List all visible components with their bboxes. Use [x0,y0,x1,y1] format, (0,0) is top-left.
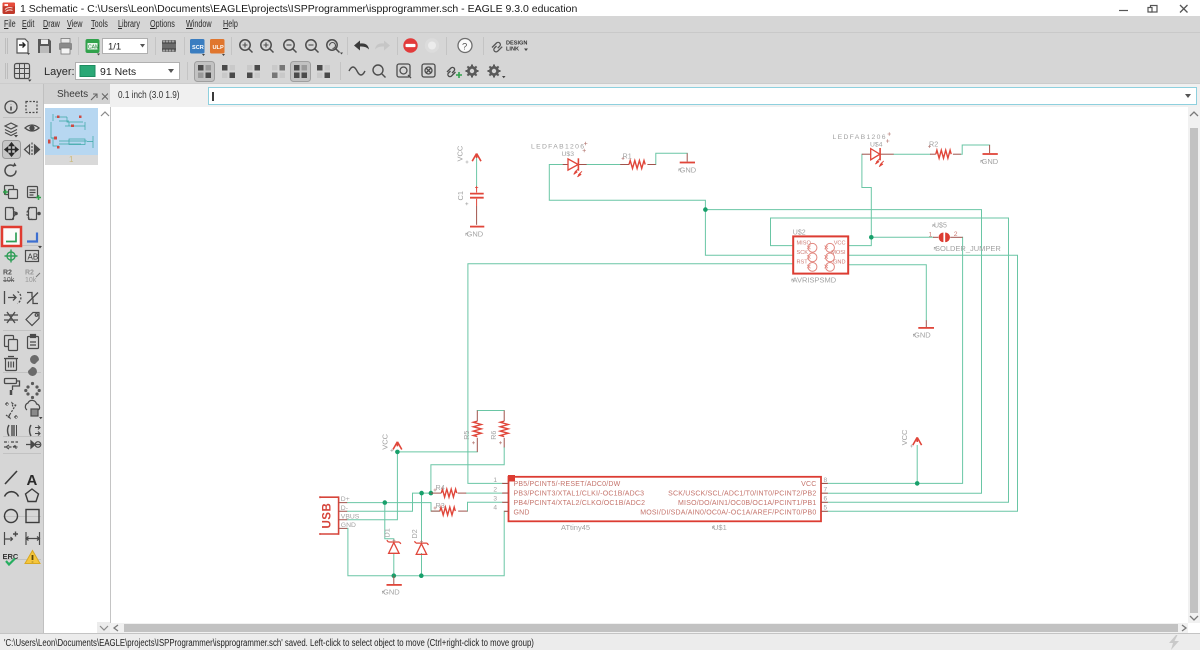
tool attribute [26,313,39,326]
wire net VCC: jumper pin2 down to ATtiny pin8 [828,237,963,483]
tool net (selected) [2,227,21,246]
tool gateswap [27,293,38,304]
layer dropdown [76,63,180,80]
svg-text:ERC: ERC [3,552,19,561]
label C1 [456,191,468,205]
redo icon (disabled) [375,41,390,51]
svg-text:7: 7 [824,487,828,494]
tool mirror [25,143,40,157]
frames tool 1 [397,64,411,78]
svg-text:GND: GND [467,230,484,239]
tool delete [4,357,18,371]
svg-text:R1: R1 [623,152,632,161]
svg-text:6: 6 [824,496,828,503]
svg-text:10k: 10k [3,277,15,284]
svg-text:U$4: U$4 [870,141,883,148]
svg-text:R2: R2 [929,140,938,149]
design link [492,41,528,53]
stop icon [403,38,417,52]
svg-text:5: 5 [824,505,828,512]
svg-text:AVRISPSMD: AVRISPSMD [793,275,837,284]
svg-text:RST: RST [797,260,809,266]
tool show [25,125,39,131]
tool rect [26,510,39,523]
svg-text:2: 2 [954,231,958,238]
label R5 [462,431,475,445]
diode D1 zener [387,540,401,553]
ground GND3 right of R1 [679,153,697,174]
label R4 [434,483,445,492]
U$1 pin numbers [493,477,827,512]
tool bus [27,233,42,249]
junction D- / D2 [419,491,424,496]
label AVRISPSMD [792,275,837,284]
save icon [38,39,51,53]
svg-text:GND: GND [680,165,697,174]
wire LED U$3 cathode to R1 [587,164,621,166]
svg-text:3: 3 [493,496,497,503]
tool change [6,208,18,220]
label U$1 [712,523,726,532]
svg-text:PB5/PCINT5/-RESET/ADC0/DW: PB5/PCINT5/-RESET/ADC0/DW [514,481,621,488]
ground GND6 bottom [382,576,402,597]
label D1 [383,528,396,542]
wire U$2 VCC pin jog to junction [848,237,871,245]
wire D2 branch down [421,493,423,576]
sheet selector 1/1 [103,39,148,54]
CAM job icon [86,39,101,56]
junction D- / R6 / R4 [429,491,434,496]
svg-text:GND: GND [341,522,356,529]
tool line [5,471,17,484]
tool paste-group [28,187,42,201]
svg-text:1: 1 [929,231,933,238]
ground GND5 below U$2 [913,320,934,339]
label SOLDER_JUMPER [934,244,1001,253]
wire junction to solder jumper pin1 [871,236,933,238]
wire R2 to GND [961,145,990,154]
svg-text:GND: GND [833,260,845,266]
supply VCC1 above C1 [456,145,482,163]
wire D1 branch down [385,503,394,542]
tool ratsnest [4,312,18,323]
link tool [447,67,462,78]
svg-text:U$3: U$3 [562,151,575,158]
wire R6 bottom to R4 junction [431,447,504,493]
tool properties [27,208,40,220]
svg-text:LINK: LINK [506,47,519,53]
wire net D+: USB D+ to R3 [347,503,440,512]
tool rotate [5,163,16,177]
U$1 pin function labels [514,481,817,516]
svg-text:Layer:: Layer: [44,66,75,78]
capacitor C1 [470,186,484,206]
zoom out icon [284,40,297,53]
zoom select icon [306,40,319,53]
grid icon [15,64,32,82]
wire net MOSI: U$2 MOSI to ATtiny pin5 [828,255,1018,511]
wire net D-: USB D- to R4 [347,493,431,511]
tool redraw dots [24,382,41,399]
svg-text:MISO/DO/AIN1/OC0B/OC1A/PCINT1/: MISO/DO/AIN1/OC0B/OC1A/PCINT1/PB1 [678,500,816,507]
svg-text:GND: GND [914,331,931,340]
wire net VBUS: USB VBUS up to VCC junction and right to R5 [347,452,477,520]
USB pin leads [339,503,348,529]
export icon [17,39,30,55]
svg-text:SCR: SCR [192,45,204,51]
svg-text:GND: GND [514,509,530,516]
svg-text:PB3/PCINT3/XTAL1/CLKI/-OC1B/AD: PB3/PCINT3/XTAL1/CLKI/-OC1B/ADC3 [514,491,645,498]
display options group [195,62,331,82]
gear tool 2 [488,65,506,79]
svg-text:91 Nets: 91 Nets [100,66,136,78]
svg-text:R6: R6 [489,431,498,440]
tool wrench [28,355,39,376]
label ATtiny45 [561,523,590,532]
junction VCC / ATtiny pin8 [915,481,920,486]
sine tool [349,67,365,75]
wire R4 right to ATtiny pin2 [466,492,502,494]
svg-text:SCK: SCK [797,250,809,256]
ULP icon [210,39,225,56]
svg-text:D2: D2 [410,529,419,538]
zoom fit icon [240,40,253,53]
solder jumper U$5 [929,231,963,242]
tool pinswap [5,402,18,419]
tool copy [5,336,18,351]
wire LED U$4 anode down to junction [862,154,871,237]
svg-text:CAM: CAM [88,45,99,51]
U$1 right pin leads 8-5 [821,483,828,511]
wire LED U$4 cathode to R2 [894,153,930,155]
wire net SCK: junction down to U$2 SCK pin [705,210,792,256]
U$2 pad name labels [797,241,846,266]
label U$2 [793,229,806,236]
svg-text:LEDFAB1206: LEDFAB1206 [531,143,584,150]
U$1 left pin leads 1-4 [502,483,508,511]
svg-text:D1: D1 [383,528,392,537]
svg-text:10k: 10k [25,277,37,284]
tool paste [28,335,39,349]
zoom redraw icon [327,40,343,55]
op-amp-style IC body U$1 ATtiny45 [493,475,827,521]
tool measure [26,532,40,545]
svg-text:D-: D- [341,505,348,512]
svg-text:U$1: U$1 [713,523,727,532]
ground GND4 right of R2 [981,145,999,166]
zoom in icon [261,40,274,53]
resistor R1 [620,161,656,169]
tool paint [5,379,20,396]
svg-text:U$2: U$2 [793,229,806,236]
svg-text:ULP: ULP [213,45,224,51]
tool arrow-diode [26,441,41,448]
svg-text:MISO: MISO [797,241,812,247]
USB pin name labels [341,496,360,529]
tool invoke [5,291,21,304]
svg-text:C1: C1 [456,191,465,201]
gear tool 1 [466,65,479,78]
svg-text:U$5: U$5 [934,222,947,229]
LED U$4 [862,148,894,167]
sheet thumbnail [45,108,98,155]
tool erc [3,552,19,565]
svg-text:AB: AB [28,253,39,262]
tool errors [25,551,40,564]
svg-text:R2: R2 [3,270,12,277]
svg-text:PB4/PCINT4/XTAL2/CLKO/OC1B/ADC: PB4/PCINT4/XTAL2/CLKO/OC1B/ADC2 [514,500,646,507]
help icon [458,39,472,53]
svg-text:R2: R2 [25,270,34,277]
film icon [162,40,176,52]
svg-text:MOSI/DI/SDA/AIN0/OC0A/-OC1A/AR: MOSI/DI/SDA/AIN0/OC0A/-OC1A/AREF/PCINT0/… [640,509,816,516]
tool split [8,425,17,436]
svg-text:USB: USB [322,503,334,529]
svg-text:GND: GND [982,157,999,166]
U$2 pad connection crosses [807,246,828,269]
wire net SCK: junction right to ATtiny pin7 [705,210,981,494]
wire U$2 GND pin to GND symbol [848,265,926,321]
supply VCC3 left [380,433,401,452]
svg-text:VCC: VCC [900,429,909,445]
svg-text:1/1: 1/1 [108,42,121,53]
svg-text:R3: R3 [436,501,445,510]
wire R1 to GND [656,153,687,164]
junction ground rail / D2 [419,573,424,578]
label R2 [928,140,938,149]
tool display layers [5,123,18,138]
connector USB bracket [320,496,360,535]
svg-text:VBUS: VBUS [341,513,360,520]
wire VCC symbol stem right [916,446,918,484]
tool value [3,270,15,285]
resistor R5 [473,411,481,452]
resistor R6 [500,411,508,448]
label R1 [622,152,632,161]
svg-text:1: 1 [493,477,497,484]
zoom tool [373,65,386,78]
svg-text:MOSI: MOSI [831,250,846,256]
LED U$3 [563,158,587,177]
svg-text:ATtiny45: ATtiny45 [561,523,590,532]
ground GND1 below C1 [466,227,485,239]
junction VBUS / VCC [395,450,400,455]
junction D+ / D1 [383,500,388,505]
tool text [27,472,38,489]
label R3 [434,501,445,510]
svg-text:R5: R5 [462,431,471,440]
svg-text:LEDFAB1206: LEDFAB1206 [833,134,886,141]
svg-text:?: ? [462,42,467,53]
label U$5 [933,222,947,229]
junction node VCC jumper [869,235,874,240]
go icon (disabled) [425,38,439,52]
tool info [5,101,17,113]
tool replace [25,400,42,419]
tool miter [30,425,40,436]
wire D1 bottom lead [393,554,395,576]
tool group [3,186,18,199]
junction node SCK [703,207,708,212]
diode D2 zener [414,541,428,554]
connector U$2 AVRISPSMD box [793,236,848,273]
svg-text:A: A [27,472,38,489]
resistor R2 [930,150,961,158]
svg-text:GND: GND [383,588,400,597]
wire net MISO: U$2 MISO to ATtiny pin6 [771,218,1009,502]
svg-text:VCC: VCC [456,145,465,161]
svg-text:4: 4 [493,505,497,512]
svg-text:D+: D+ [341,496,350,503]
tool circle [5,510,18,523]
supply VCC2 right [900,429,921,448]
tool smash [25,270,40,285]
tool junction [5,250,18,263]
wire net RST: to U$2 RST and down to ATtiny pin1 [468,264,793,484]
svg-text:SCK/USCK/SCL/ADC1/T0/INT0/PCIN: SCK/USCK/SCL/ADC1/T0/INT0/PCINT2/PB2 [668,491,816,498]
wire R5 R6 top connector [477,410,504,412]
resistor R3 [431,507,468,515]
tool polygon [26,489,39,502]
svg-text:8: 8 [824,477,828,484]
frames tool 2 [422,64,435,77]
wire ground rail: USB GND to bottom rail up to ATtiny pin4 [347,511,504,575]
svg-text:VCC: VCC [801,481,816,488]
wire R3 right jog up to ATtiny pin3 [468,502,503,511]
tool label [26,251,39,262]
svg-text:SOLDER_JUMPER: SOLDER_JUMPER [935,244,1001,253]
undo icon [354,41,369,51]
SCR icon [190,39,205,56]
label R6 [489,431,502,445]
U$2 pad circles [808,243,834,271]
svg-text:VCC: VCC [380,433,389,449]
tool arc [5,492,19,497]
resistor R4 [431,489,466,497]
svg-text:R4: R4 [436,483,445,492]
print icon [59,39,72,55]
tool move (active) [3,141,21,159]
wire net SCK: LED U$3 anode loop to junction [549,165,705,210]
label LEDFAB1206 U$4 [833,132,891,148]
label D2 [410,529,423,543]
tool dimension [5,532,19,546]
junction ground rail / D1 [392,573,397,578]
tool arrows-left-right [4,442,18,449]
label LEDFAB1206 U$3 [531,142,587,158]
wire VCC to C1 stem [476,158,478,187]
svg-text:VCC: VCC [834,241,846,247]
tool mark [26,102,37,113]
svg-text:2: 2 [493,487,497,494]
